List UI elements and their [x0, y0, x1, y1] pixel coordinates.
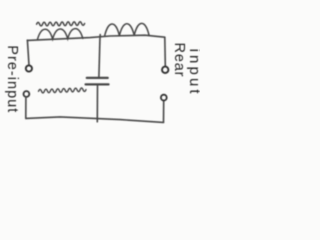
svg-text:Rear: Rear — [171, 43, 187, 77]
svg-text:Pre-input: Pre-input — [4, 45, 20, 112]
